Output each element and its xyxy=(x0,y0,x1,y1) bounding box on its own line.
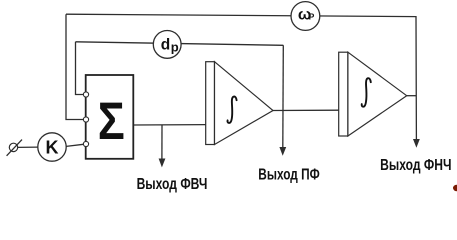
svg-text:d: d xyxy=(161,36,170,53)
svg-text:Выход ФВЧ: Выход ФВЧ xyxy=(137,175,208,193)
svg-text:K: K xyxy=(46,138,59,158)
svg-text:p: p xyxy=(171,40,179,55)
svg-text:Выход ФНЧ: Выход ФНЧ xyxy=(380,156,451,174)
svg-text:Σ: Σ xyxy=(98,92,125,151)
svg-text:Выход ПФ: Выход ПФ xyxy=(258,165,319,183)
svg-text:P: P xyxy=(309,12,315,22)
